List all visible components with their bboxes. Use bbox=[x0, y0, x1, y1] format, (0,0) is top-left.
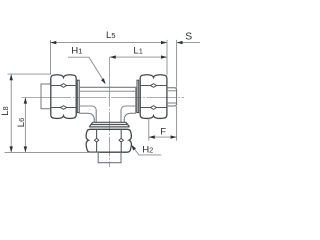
wire left tube stub bbox=[41, 84, 51, 109]
wire left flange bbox=[77, 80, 79, 112]
wire L5-S dimension line bbox=[50, 42, 200, 44]
node left nut diamond bottom bbox=[60, 106, 66, 110]
node vertical centerline bbox=[109, 57, 111, 167]
svg-text:H1: H1 bbox=[71, 46, 82, 57]
wire left nut facet lines bbox=[51, 86, 76, 108]
node bottom flange bbox=[89, 122, 129, 127]
node bottom nut diamond left bbox=[94, 138, 98, 142]
wire bottom nut facet lines bbox=[97, 129, 122, 152]
node arrow H1 tip bbox=[101, 78, 106, 84]
node arrow L1 left bbox=[110, 55, 116, 58]
wire extension vertical x167 bbox=[166, 40, 168, 76]
node arrow F left bbox=[149, 135, 155, 138]
svg-text:F: F bbox=[160, 127, 166, 138]
node horizontal centerline bbox=[22, 97, 185, 99]
node bottom nut diamond right bbox=[119, 138, 123, 142]
wire extension vertical x50 bbox=[50, 40, 52, 75]
wire body upper facet line bbox=[79, 90, 136, 92]
node right nut diamond top bbox=[150, 84, 156, 88]
wire extension vertical F left bbox=[148, 118, 150, 140]
wire L1 dimension line bbox=[110, 56, 167, 58]
wire right threaded stub bbox=[167, 88, 177, 106]
node arrow S left-facing bbox=[177, 41, 183, 44]
wire H2 leader bbox=[132, 145, 162, 155]
wire body bottom with fillets bbox=[79, 113, 136, 120]
wire H1 leader bbox=[68, 57, 105, 83]
nut bottom hex nut bbox=[86, 129, 131, 152]
svg-text:L5: L5 bbox=[106, 30, 115, 41]
node left nut diamond top bbox=[60, 84, 66, 88]
wire right flange bbox=[137, 80, 139, 112]
node arrow L6 bottom bbox=[24, 146, 27, 152]
node body of tee bbox=[79, 87, 136, 113]
node arrow H2 tip bbox=[131, 145, 136, 151]
wire thread inner lines bbox=[167, 91, 177, 103]
svg-text:L1: L1 bbox=[133, 45, 142, 56]
wire extension vertical x176 bbox=[176, 40, 178, 141]
nut left compression nut bbox=[51, 75, 76, 119]
node arrow L5 right bbox=[161, 41, 167, 44]
wire right nut facet lines bbox=[140, 86, 167, 108]
wire F dimension line bbox=[149, 136, 177, 138]
node right nut diamond bottom bbox=[150, 106, 156, 110]
svg-text:S: S bbox=[185, 31, 192, 42]
node arrow L6 top bbox=[24, 98, 27, 104]
svg-text:L6: L6 bbox=[16, 118, 27, 127]
wire bottom branch tube walls bbox=[94, 110, 124, 122]
node arrow F right bbox=[171, 135, 177, 138]
node arrow L5 left bbox=[50, 41, 56, 44]
node arrow L8 top bbox=[10, 74, 13, 80]
wire L6 dimension line bbox=[24, 98, 26, 153]
wire extension line top left bbox=[8, 73, 51, 75]
wire body lower facet line with fillets bbox=[79, 106, 136, 111]
svg-text:L8: L8 bbox=[0, 106, 11, 115]
wire extension line bottom bbox=[5, 151, 99, 153]
wire L8 dimension line bbox=[10, 74, 12, 152]
nut right compression nut bbox=[140, 75, 167, 119]
node arrow L1 right bbox=[161, 55, 167, 58]
svg-text:H2: H2 bbox=[142, 145, 153, 156]
wire bottom thread stub bbox=[98, 152, 121, 163]
node arrow L8 bottom bbox=[10, 146, 13, 152]
